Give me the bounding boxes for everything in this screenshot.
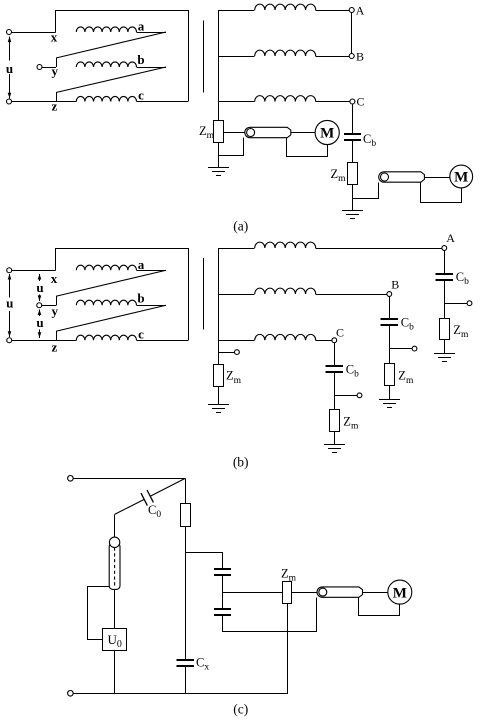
figure (a) winding b [76, 62, 136, 67]
figure (b) tap stub chain C [334, 395, 357, 397]
figure (c) diagonal wire lower segment [115, 499, 145, 514]
figure (b) resistor Zm chain A [440, 319, 450, 340]
figure (b) wire winding c to box edge [136, 340, 188, 342]
figure (b) winding a [76, 265, 136, 270]
figure (b) resistor Zm chain C [330, 410, 340, 432]
svg-text:(b): (b) [233, 455, 249, 470]
figure (b) wire Cb to junction chain B [389, 325, 391, 364]
figure (a) terminal T2 (bottom-left) [7, 99, 12, 104]
figure (a) wire winding a to tip [136, 32, 166, 34]
figure (b) terminal C [332, 338, 337, 343]
figure (a) secondary bus wire [218, 10, 220, 121]
figure (c) terminal bottom [68, 691, 74, 697]
svg-text:M: M [454, 170, 468, 186]
figure (b) terminal y [37, 303, 42, 308]
figure (c) divider tap wire to Zm [223, 592, 283, 594]
figure (c) resistor (unlabeled) right column [181, 504, 191, 527]
figure (b) wire y terminal to node y [42, 305, 56, 307]
figure (b) tap terminal chain B [412, 346, 417, 351]
figure (a) winding a [76, 27, 136, 32]
figure (a) wire coax 2 shield to meter M2 bottom [421, 183, 462, 203]
figure (b) terminal T2 (bottom-left) [7, 338, 12, 343]
figure (a) wire winding C to terminal C [316, 101, 350, 103]
figure (a) wire coax 2 to meter M2 [424, 177, 449, 179]
svg-text:c: c [138, 88, 144, 103]
figure (a) wire coax 1 to meter M1 [291, 132, 316, 134]
figure (a) voltage arrow u [9, 37, 11, 61]
figure (b) terminal A [442, 246, 447, 251]
figure (c) wire divider cap2 down [222, 615, 224, 632]
figure (b) capacitor Cb chain A [436, 273, 453, 275]
figure (c) branch wire to divider capacitors [186, 553, 223, 570]
figure (c) divider capacitor 2 [214, 608, 231, 610]
figure (c) divider capacitor 1 [214, 568, 231, 570]
figure (a) wire y terminal to node y [42, 67, 56, 69]
figure (a) wire winding B to terminal B [316, 56, 350, 58]
figure (b) stub at node z [56, 331, 58, 340]
svg-text:M: M [320, 126, 334, 142]
figure (b) wire Zm to ground chain A [444, 340, 446, 353]
figure (b) wire winding a to tip [136, 270, 166, 272]
figure (a) wire bus to secondary winding A [219, 10, 255, 12]
figure (b) wire Cb to junction chain A [444, 280, 446, 318]
figure (b) winding c [76, 335, 136, 340]
svg-text:u: u [6, 296, 13, 311]
svg-text:A: A [446, 231, 455, 245]
figure (b) secondary winding C [255, 334, 316, 340]
figure (a) wire T2 to node z [12, 101, 77, 103]
figure (a) wire bus to secondary winding B [219, 56, 255, 58]
figure (a) transformer core bar [203, 20, 205, 92]
svg-text:c: c [138, 326, 144, 341]
figure (b) transformer core bar [203, 258, 205, 330]
svg-text:u: u [36, 315, 43, 330]
figure (c) wire Zm to coax [292, 592, 318, 594]
figure (b) secondary winding B [255, 288, 316, 294]
figure (a) wire Cb to resistor Zm 2 [352, 140, 354, 162]
figure (a) meter M1 [315, 120, 339, 144]
figure (c) bushing axis dashed line [114, 548, 116, 589]
svg-text:B: B [356, 50, 364, 64]
figure (a) resistor Zm on bus [214, 121, 224, 143]
figure (b) wire Zm to ground [218, 386, 220, 405]
figure (c) diagonal wire upper segment [150, 478, 185, 496]
figure (a) wire winding b to tip [136, 67, 166, 69]
figure (b) wire bus to secondary winding A [218, 248, 254, 250]
figure (c) meter M [388, 580, 412, 604]
figure (a) secondary winding C [255, 96, 316, 102]
figure (a) secondary winding B [255, 50, 316, 56]
figure (b) wire winding C to terminal C [316, 340, 332, 342]
figure (b) tap terminal chain C [357, 393, 362, 398]
figure (c) wire Cx to bottom bus [185, 666, 187, 693]
figure (c) right column upper wire [185, 478, 187, 503]
figure (a) wire Zm 2 to ground 2 [352, 184, 354, 211]
figure (a) wire winding A to terminal A [316, 10, 350, 12]
figure (b) wire terminal B to capacitor Cb [389, 296, 391, 319]
svg-text:C: C [336, 325, 344, 339]
figure (b) voltage arrow u upper inner [39, 274, 41, 281]
figure (a) wire junction to coax 2 [353, 183, 379, 199]
figure (c) wire divider cap1 to cap2 [222, 575, 224, 608]
figure (b) wire winding b to tip [136, 305, 166, 307]
figure (c) wire bushing to U0 [114, 589, 116, 628]
svg-text:b: b [137, 290, 144, 305]
figure (a) feedback wire from winding c end to node x (box outline) [56, 11, 189, 102]
svg-text:(c): (c) [233, 702, 248, 717]
svg-text:u: u [6, 61, 13, 76]
figure (c) wire Zm bottom to bottom bus [287, 603, 289, 693]
figure (a) diagonal wire a-end to node y [56, 32, 166, 58]
svg-text:C: C [356, 95, 364, 109]
svg-text:a: a [138, 19, 145, 34]
figure (a) terminal A [349, 8, 354, 13]
figure (a) terminal C [350, 99, 355, 104]
figure (b) wire Zm to ground chain B [389, 386, 391, 399]
figure (a) wire Zm bottom to ground [218, 143, 220, 168]
svg-text:x: x [51, 29, 58, 44]
figure (c) wire coax to meter M [363, 592, 388, 594]
figure (c) top wire [73, 478, 185, 480]
figure (b) neutral stub wire [218, 352, 234, 354]
figure (a) wire T1 to node x [12, 32, 56, 34]
figure (c) wire U0 to bottom bus [114, 650, 116, 693]
figure (c) bushing tap wire to U0 [88, 587, 110, 640]
svg-text:b: b [137, 52, 144, 67]
figure (a) wire junction to coax 1 shield [219, 138, 244, 156]
figure (b) resistor Zm on bus [214, 365, 224, 387]
svg-text:u: u [36, 280, 43, 295]
figure (b) wire terminal A to capacitor Cb [444, 250, 446, 273]
svg-text:M: M [393, 585, 407, 601]
figure (a) terminal B [349, 54, 354, 59]
figure (b) wire winding B to terminal B [316, 294, 387, 296]
figure (a) stub at node y [56, 58, 58, 67]
figure (a) winding c [76, 96, 136, 101]
figure (b) ground chain B [379, 399, 400, 401]
figure (a) wire Zm to coax 1 [224, 132, 247, 134]
figure (a) wire bus to secondary winding C [219, 101, 255, 103]
svg-text:x: x [51, 271, 58, 286]
figure (c) terminal top [68, 476, 74, 482]
figure (b) wire bus to secondary winding B [218, 294, 254, 296]
figure (a) capacitor Cb [344, 133, 361, 135]
figure (a) wire winding c to box edge [136, 101, 188, 103]
figure (b) winding b [76, 300, 136, 305]
figure (a) diagonal wire b-end to node z [56, 67, 166, 93]
figure (b) capacitor Cb chain B [381, 318, 398, 320]
figure (a) ground 1 [208, 167, 229, 169]
figure (c) wire diagonal to bushing [114, 514, 116, 537]
figure (a) resistor Zm 2 [348, 163, 358, 185]
figure (b) capacitor Cb chain C [326, 365, 343, 367]
svg-text:A: A [356, 3, 365, 17]
figure (c) coax cable [317, 587, 362, 597]
figure (b) feedback wire from winding c end to node x (box outline) [56, 249, 189, 341]
figure (b) ground chain A [434, 353, 455, 355]
figure (b) ground bus [208, 404, 229, 406]
figure (c) bushing tube [109, 543, 120, 590]
figure (b) terminal B [387, 292, 392, 297]
figure (b) tap stub chain B [389, 348, 412, 350]
figure (c) wire divider bottom to coax shield [223, 598, 317, 632]
figure (c) wire coax shield to meter M bottom [359, 598, 400, 616]
svg-text:y: y [51, 63, 58, 78]
figure (a) terminal y [37, 65, 42, 70]
figure (b) tap terminal chain A [467, 301, 472, 306]
svg-text:z: z [52, 339, 58, 354]
figure (c) capacitor C0 plate 1 [141, 493, 147, 505]
figure (b) wire bus to secondary winding C [218, 340, 254, 342]
figure (b) tap stub chain A [444, 303, 467, 305]
figure (b) diagonal wire a-end to node y [56, 270, 166, 296]
figure (c) instrument U0 box [103, 629, 127, 651]
figure (b) diagonal wire b-end to node z [56, 305, 166, 331]
figure (c) capacitor Cx [177, 659, 195, 661]
figure (a) coax cable 1 [245, 127, 291, 137]
svg-text:B: B [391, 277, 399, 291]
figure (b) wire terminal C to capacitor Cb [334, 343, 336, 367]
figure (a) ground 2 [342, 210, 363, 212]
figure (c) bottom bus wire [73, 693, 288, 695]
figure (b) wire winding A to terminal A [316, 248, 442, 250]
figure (b) secondary winding A [255, 242, 316, 248]
figure (a) wire terminal C to capacitor Cb [352, 104, 354, 134]
svg-text:a: a [138, 257, 145, 272]
figure (b) stub at node y [56, 296, 58, 305]
figure (b) wire T2 to node z [12, 340, 77, 342]
figure (c) wire resistor to Cx [185, 527, 187, 661]
figure (a) coax cable 2 [379, 172, 425, 182]
figure (a) stub at node z [56, 93, 58, 102]
figure (a) wire coax 1 shield to meter M1 bottom [287, 138, 328, 157]
svg-text:(a): (a) [233, 219, 248, 234]
figure (a) secondary winding A [255, 4, 316, 10]
figure (b) voltage arrow u lower inner [39, 309, 41, 316]
figure (b) ground chain C [324, 444, 345, 446]
figure (b) wire Cb to junction chain C [334, 372, 336, 409]
figure (b) secondary bus wire [218, 248, 220, 364]
figure (c) bushing top electrode circle [109, 537, 119, 547]
figure (a) meter M2 [450, 165, 473, 188]
figure (b) wire T1 to node x [12, 270, 56, 272]
figure (a) terminal T1 (top-left) [7, 30, 12, 35]
figure (b) resistor Zm chain B [385, 364, 395, 386]
figure (b) voltage arrow u outer [9, 274, 11, 298]
figure (b) terminal T1 (top-left) [7, 268, 12, 273]
figure (c) resistor Zm [283, 582, 292, 604]
figure (c) capacitor C0 plate 2 [147, 490, 153, 502]
figure (b) neutral terminal [235, 350, 240, 355]
figure (a) link wire terminal A to terminal B [351, 13, 353, 54]
figure (b) wire Zm to ground chain C [334, 432, 336, 445]
svg-text:y: y [51, 303, 58, 318]
